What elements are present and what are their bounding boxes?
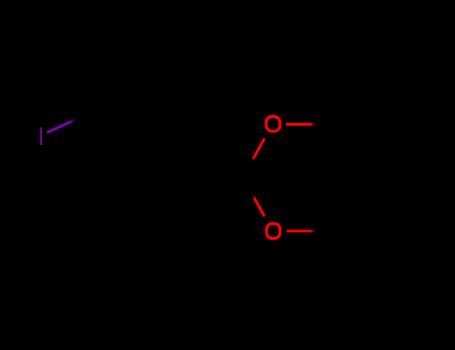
bond I-C1 (carbon half, black, invisible) xyxy=(76,109,97,120)
bond O2-C4 lower-left (oxygen-colored half, fades toward ring carbon) xyxy=(253,196,265,217)
bond O2-C4 lower-left (carbon half, black, invisible) xyxy=(243,177,253,196)
bond C6-C7 ring right lower (black, invisible) xyxy=(341,177,371,231)
wire bond C1-C2 chain (black, invisible) xyxy=(97,109,152,135)
bond C5-C7 ring right upper (black, invisible) xyxy=(341,124,371,177)
wire bond C2-C3 chain (black, invisible) xyxy=(152,134,187,156)
bond O1-C4 upper-left (carbon half, black, invisible) xyxy=(243,161,252,177)
oxygen atom label O2 (bottom) xyxy=(267,224,280,239)
bond O2-C6 bottom-right horizontal (oxygen-colored half, fades right) xyxy=(287,230,316,233)
bond O1-C4 upper-left (oxygen-colored half, fades toward ring carbon) xyxy=(252,139,265,161)
oxygen atom label O1 (top) xyxy=(266,117,280,132)
iodine atom label I xyxy=(40,127,42,145)
bond O1-C5 top-right horizontal (oxygen-colored half, fades right) xyxy=(286,123,316,126)
bond I-C1 (iodine-colored half, fades toward midpoint) xyxy=(47,120,76,133)
wire bond C3-C4 acetal carbon (black, invisible) xyxy=(187,156,243,177)
bond O2-C6 bottom-right horizontal (carbon half, black, invisible) xyxy=(316,230,342,233)
bond O1-C5 top-right horizontal (carbon half, black, invisible) xyxy=(316,123,342,126)
